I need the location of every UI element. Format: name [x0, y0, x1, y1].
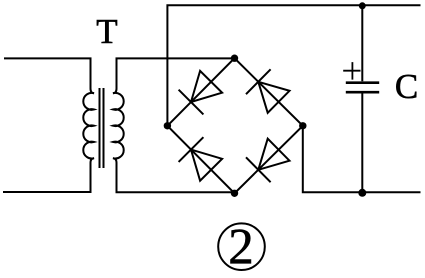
diode D4 bottom-right (cathode toward bottom node): [246, 139, 290, 183]
wire secondary top to bridge top node: [113, 58, 235, 93]
transformer T primary winding: [83, 93, 94, 159]
node bridge right: [299, 122, 306, 129]
wire bridge left node up and top rail: [167, 5, 420, 126]
wire bridge right node down and bottom rail: [303, 126, 421, 193]
transformer core: [100, 88, 104, 168]
node bridge left: [164, 122, 171, 129]
svg-text:C: C: [395, 67, 418, 106]
transformer T secondary winding: [113, 93, 124, 159]
diode D3 bottom-left (cathode toward left node): [179, 137, 223, 181]
figure number circle: [218, 223, 265, 270]
svg-text:T: T: [96, 12, 117, 51]
wire primary top: [4, 58, 94, 93]
wire secondary bottom to bridge bottom node: [113, 158, 235, 192]
capacitor C plates: [346, 83, 379, 93]
node bridge bottom: [231, 190, 238, 197]
plus polarity mark: [343, 62, 360, 80]
bridge diamond wires: [167, 58, 302, 193]
node capacitor top: [359, 2, 366, 9]
diode D1 top-left (cathode toward left node): [179, 71, 223, 115]
wire primary bottom: [3, 158, 94, 192]
svg-text:2: 2: [228, 220, 254, 276]
capacitor C top lead: [361, 5, 363, 81]
node bridge top: [231, 55, 238, 62]
capacitor C bottom lead: [361, 94, 363, 193]
diode D2 top-right (cathode toward top node): [246, 69, 290, 113]
node capacitor bottom: [358, 189, 366, 197]
